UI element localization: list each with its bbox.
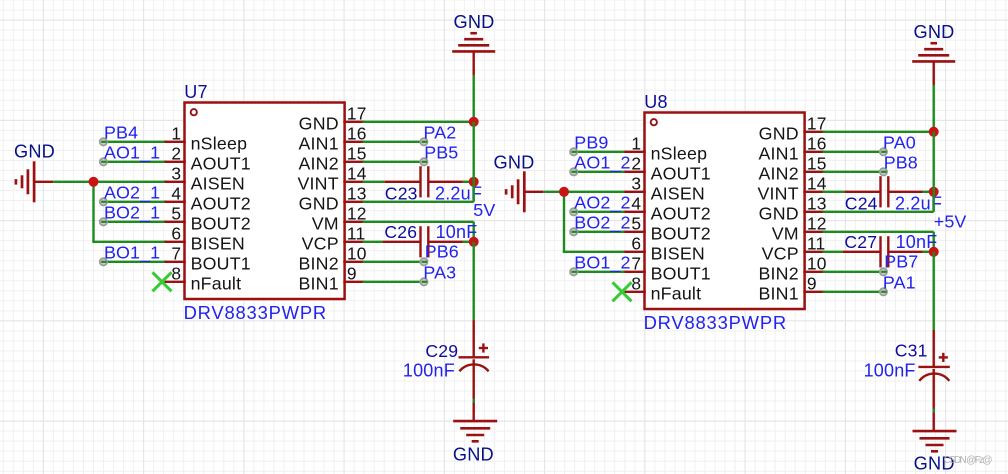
svg-text:1: 1 bbox=[631, 134, 641, 154]
pin 17 (GND) bbox=[803, 131, 824, 133]
pin end dot (BO2_1) bbox=[100, 218, 107, 225]
svg-text:9: 9 bbox=[347, 264, 357, 284]
wire pin 14 VINT to capacitor C24 bbox=[823, 191, 845, 193]
wire net BO2_1 to pin 5 bbox=[103, 221, 166, 223]
svg-text:GND: GND bbox=[759, 204, 799, 224]
pin 6 (BISEN) bbox=[164, 241, 185, 243]
wire 5V rail down to capacitor C29 bbox=[473, 242, 475, 321]
svg-text:GND: GND bbox=[299, 114, 339, 134]
wire pin 11 VCP to capacitor C27 bbox=[823, 251, 843, 253]
svg-text:BO2_1: BO2_1 bbox=[104, 202, 160, 223]
svg-text:GND: GND bbox=[299, 194, 339, 214]
svg-text:5: 5 bbox=[171, 204, 181, 224]
wire pin 11 VCP to capacitor C26 bbox=[363, 241, 383, 243]
svg-text:U7: U7 bbox=[184, 82, 207, 102]
pin 6 (BISEN) bbox=[624, 251, 645, 253]
no-connect X on pin 8 nFault bbox=[153, 272, 172, 291]
wire pin 15 to net PB8 bbox=[823, 171, 884, 173]
pin 9 (BIN1) bbox=[343, 281, 364, 283]
pin 8 (nFault) bbox=[624, 291, 645, 293]
U8 symbol circle mark bbox=[651, 119, 657, 125]
pin 4 (AOUT2) bbox=[624, 211, 645, 213]
svg-text:3: 3 bbox=[171, 164, 181, 184]
ground (top, U8 GND rail) bbox=[912, 43, 955, 85]
svg-text:PA1: PA1 bbox=[883, 272, 916, 292]
pin 9 (BIN1) bbox=[803, 291, 824, 293]
svg-text:GND: GND bbox=[453, 445, 494, 465]
svg-text:AO1_2: AO1_2 bbox=[574, 152, 630, 173]
junction (GND rail / pin 17) bbox=[469, 117, 479, 127]
wire GND rail vertical bbox=[933, 85, 935, 132]
pin 15 (AIN2) bbox=[343, 161, 364, 163]
svg-text:C23: C23 bbox=[385, 184, 418, 204]
pin end dot (BO2_2) bbox=[570, 228, 577, 235]
svg-text:C31: C31 bbox=[895, 341, 928, 361]
wire GND rail pin17 to VINT cap bbox=[473, 122, 475, 182]
svg-text:5: 5 bbox=[631, 214, 641, 234]
U7 symbol circle mark bbox=[191, 109, 197, 115]
pin end dot (PA1) bbox=[880, 288, 887, 295]
pin 8 (nFault) bbox=[164, 281, 185, 283]
wire pin 16 to net PA0 bbox=[823, 151, 884, 153]
ground (bottom, U8) bbox=[913, 431, 957, 451]
svg-text:AO2_1: AO2_1 bbox=[104, 182, 160, 203]
svg-text:9: 9 bbox=[807, 274, 817, 294]
svg-text:nSleep: nSleep bbox=[191, 134, 248, 154]
svg-text:PA2: PA2 bbox=[424, 122, 457, 142]
pin 1 (nSleep) bbox=[624, 151, 645, 153]
junction (5V rail / C26) bbox=[469, 237, 479, 247]
wire net PB4 to pin 1 bbox=[103, 141, 166, 143]
svg-text:4: 4 bbox=[171, 184, 181, 204]
pin 14 (VINT) bbox=[343, 181, 364, 183]
junction (GND branch) bbox=[89, 177, 99, 187]
svg-text:AIN1: AIN1 bbox=[758, 144, 798, 164]
svg-text:8: 8 bbox=[171, 264, 181, 284]
wire GND to pin 3 (AISEN) bbox=[53, 181, 166, 183]
svg-text:AOUT2: AOUT2 bbox=[191, 194, 251, 214]
svg-text:U8: U8 bbox=[644, 92, 667, 112]
svg-text:AISEN: AISEN bbox=[651, 184, 705, 204]
svg-text:8: 8 bbox=[631, 274, 641, 294]
wire pin 14 VINT to capacitor C23 bbox=[363, 181, 385, 183]
svg-text:BOUT2: BOUT2 bbox=[191, 214, 251, 234]
svg-text:BIN1: BIN1 bbox=[298, 274, 338, 294]
svg-text:GND: GND bbox=[913, 22, 954, 42]
wire pin 9 to net PA1 bbox=[823, 291, 884, 293]
svg-text:DRV8833PWPR: DRV8833PWPR bbox=[184, 302, 327, 323]
wire net PB9 to pin 1 bbox=[574, 151, 627, 153]
svg-text:7: 7 bbox=[631, 254, 641, 274]
pin 3 (AISEN) bbox=[624, 191, 645, 193]
svg-text:GND: GND bbox=[493, 152, 534, 172]
wire net AO1_1 to pin 2 bbox=[103, 161, 166, 163]
svg-text:PA0: PA0 bbox=[883, 132, 916, 152]
pin 14 (VINT) bbox=[803, 191, 824, 193]
pin 2 (AOUT1) bbox=[164, 161, 185, 163]
svg-text:AIN2: AIN2 bbox=[758, 164, 798, 184]
pin 10 (BIN2) bbox=[803, 271, 824, 273]
wire 5V rail down to capacitor C31 bbox=[933, 252, 935, 330]
wire GND rail vertical bbox=[473, 75, 475, 122]
svg-text:BOUT1: BOUT1 bbox=[651, 264, 711, 284]
svg-text:BIN1: BIN1 bbox=[758, 284, 798, 304]
wire GND branch down to pin 6 (BISEN) bbox=[92, 182, 166, 242]
pin 11 (VCP) bbox=[803, 251, 824, 253]
pin end dot (PB9) bbox=[570, 148, 577, 155]
wire net AO2_2 to pin 4 bbox=[574, 211, 627, 213]
pin 3 (AISEN) bbox=[164, 181, 185, 183]
ground (top, U7 GND rail) bbox=[452, 33, 495, 75]
svg-text:BOUT1: BOUT1 bbox=[191, 254, 251, 274]
wire pin 12 VM to 5V rail corner bbox=[363, 222, 474, 242]
pin 5 (BOUT2) bbox=[164, 221, 185, 223]
wire net AO2_1 to pin 4 bbox=[103, 201, 166, 203]
pin end dot (PB5) bbox=[420, 158, 427, 165]
svg-text:10nF: 10nF bbox=[436, 222, 478, 242]
pin 7 (BOUT1) bbox=[624, 271, 645, 273]
svg-text:VCP: VCP bbox=[302, 234, 339, 254]
wire stitch on C29 lower lead bbox=[473, 399, 475, 403]
junction (GND branch) bbox=[559, 187, 569, 197]
pin 5 (BOUT2) bbox=[624, 231, 645, 233]
svg-text:nSleep: nSleep bbox=[651, 144, 708, 164]
capacitor C24 (2.2uF) bbox=[845, 176, 923, 207]
svg-text:nFault: nFault bbox=[651, 284, 702, 304]
junction (GND rail / C24) bbox=[929, 187, 939, 197]
svg-text:AO2_2: AO2_2 bbox=[574, 192, 630, 213]
svg-text:AISEN: AISEN bbox=[191, 174, 245, 194]
wire GND branch down to pin 6 (BISEN) bbox=[563, 192, 627, 252]
svg-text:VINT: VINT bbox=[297, 174, 338, 194]
svg-text:AOUT2: AOUT2 bbox=[651, 204, 711, 224]
pin end dot (PB4) bbox=[100, 138, 107, 145]
svg-text:3: 3 bbox=[631, 174, 641, 194]
svg-text:4: 4 bbox=[631, 194, 641, 214]
capacitor C27 (10nF) bbox=[843, 236, 923, 267]
svg-text:11: 11 bbox=[807, 234, 825, 254]
svg-text:C27: C27 bbox=[844, 232, 877, 252]
wire capacitor C23 to GND rail bbox=[463, 181, 474, 183]
svg-text:AIN2: AIN2 bbox=[298, 154, 338, 174]
svg-text:BO1_1: BO1_1 bbox=[104, 242, 160, 263]
svg-text:PB5: PB5 bbox=[424, 142, 458, 162]
wire net AO1_2 to pin 2 bbox=[574, 171, 627, 173]
wire pin 15 to net PB5 bbox=[363, 161, 424, 163]
svg-text:DRV8833PWPR: DRV8833PWPR bbox=[644, 312, 787, 333]
wire pin 16 to net PA2 bbox=[363, 141, 424, 143]
pin 11 (VCP) bbox=[343, 241, 364, 243]
wire capacitor C24 to GND rail bbox=[923, 191, 934, 193]
svg-text:PB4: PB4 bbox=[104, 122, 138, 142]
svg-text:AOUT1: AOUT1 bbox=[191, 154, 251, 174]
svg-text:CSDN @Fz@: CSDN @Fz@ bbox=[944, 455, 993, 466]
svg-text:11: 11 bbox=[347, 224, 365, 244]
svg-text:GND: GND bbox=[453, 12, 494, 32]
svg-text:AIN1: AIN1 bbox=[298, 134, 338, 154]
svg-text:VCP: VCP bbox=[762, 244, 799, 264]
pin end dot (PA0) bbox=[880, 148, 887, 155]
capacitor C23 (2.2uF) bbox=[385, 166, 463, 197]
pin 4 (AOUT2) bbox=[164, 201, 185, 203]
svg-text:5V: 5V bbox=[473, 200, 495, 220]
ground (bottom, U7) bbox=[453, 421, 497, 441]
pin 13 (GND) bbox=[343, 201, 364, 203]
svg-text:10nF: 10nF bbox=[896, 232, 938, 252]
pin end dot (AO2_2) bbox=[570, 208, 577, 215]
ground U7 left (signal ground for AISEN/BISEN) bbox=[16, 161, 53, 202]
pin 12 (VM) bbox=[343, 221, 364, 223]
svg-text:6: 6 bbox=[171, 224, 181, 244]
svg-text:nFault: nFault bbox=[191, 274, 242, 294]
svg-text:BOUT2: BOUT2 bbox=[651, 224, 711, 244]
pin 17 (GND) bbox=[343, 121, 364, 123]
svg-text:C29: C29 bbox=[425, 341, 458, 361]
svg-text:BO2_2: BO2_2 bbox=[574, 212, 630, 233]
pin end dot (BO1_2) bbox=[570, 268, 577, 275]
junction (GND rail / pin 17) bbox=[929, 127, 939, 137]
svg-text:100nF: 100nF bbox=[403, 360, 455, 380]
wire pin 17 GND to vertical GND rail bbox=[363, 121, 474, 123]
pin 1 (nSleep) bbox=[164, 141, 185, 143]
svg-text:AO1_1: AO1_1 bbox=[104, 142, 160, 163]
pin end dot (PB7) bbox=[880, 268, 887, 275]
pin end dot (AO1_1) bbox=[100, 158, 107, 165]
svg-text:VM: VM bbox=[312, 214, 339, 234]
svg-text:BIN2: BIN2 bbox=[298, 254, 338, 274]
wire pin 9 to net PA3 bbox=[363, 281, 424, 283]
junction (5V rail / C27) bbox=[929, 247, 939, 257]
wire net BO1_1 to pin 7 bbox=[103, 261, 166, 263]
pin 16 (AIN1) bbox=[343, 141, 364, 143]
pin end dot (PB8) bbox=[880, 168, 887, 175]
wire pin 13 GND up to rail corner bbox=[823, 192, 934, 212]
pin 13 (GND) bbox=[803, 211, 824, 213]
svg-text:PB7: PB7 bbox=[884, 252, 918, 272]
svg-text:C24: C24 bbox=[845, 194, 878, 214]
ground U8 left (signal ground for AISEN/BISEN) bbox=[506, 171, 543, 212]
wire capacitor C26 to 5V rail bbox=[463, 241, 474, 243]
no-connect X on pin 8 nFault bbox=[613, 282, 632, 301]
capacitor C29 (100nF, polarized) bbox=[459, 320, 490, 421]
wire pin 10 to net PB7 bbox=[823, 271, 884, 273]
IC body U8 DRV8833PWPR bbox=[645, 113, 805, 310]
pin end dot (PB6) bbox=[420, 258, 427, 265]
pin 7 (BOUT1) bbox=[164, 261, 185, 263]
svg-text:C26: C26 bbox=[384, 222, 417, 242]
svg-text:1: 1 bbox=[171, 124, 181, 144]
svg-text:2: 2 bbox=[171, 144, 181, 164]
wire GND to pin 3 (AISEN) bbox=[543, 191, 626, 193]
pin 15 (AIN2) bbox=[803, 171, 824, 173]
capacitor C31 (100nF, polarized) bbox=[918, 330, 949, 431]
pin 10 (BIN2) bbox=[343, 261, 364, 263]
wire pin 10 to net PB6 bbox=[363, 261, 424, 263]
wire GND rail pin17 to VINT cap bbox=[933, 132, 935, 192]
svg-text:2: 2 bbox=[631, 154, 641, 174]
svg-text:BISEN: BISEN bbox=[651, 244, 705, 264]
pin 2 (AOUT1) bbox=[624, 171, 645, 173]
pin end dot (PA3) bbox=[420, 278, 427, 285]
svg-text:VINT: VINT bbox=[757, 184, 798, 204]
wire stitch on C31 lower lead bbox=[933, 409, 935, 413]
svg-text:2.2uF: 2.2uF bbox=[895, 194, 942, 214]
svg-text:VM: VM bbox=[772, 224, 799, 244]
svg-text:BO1_2: BO1_2 bbox=[574, 252, 630, 273]
svg-text:BISEN: BISEN bbox=[191, 234, 245, 254]
wire net BO2_2 to pin 5 bbox=[574, 231, 627, 233]
svg-text:PB6: PB6 bbox=[425, 242, 459, 262]
svg-text:BIN2: BIN2 bbox=[758, 264, 798, 284]
svg-text:6: 6 bbox=[631, 234, 641, 254]
pin end dot (AO1_2) bbox=[570, 168, 577, 175]
svg-text:PB9: PB9 bbox=[574, 132, 608, 152]
svg-text:+5V: +5V bbox=[934, 212, 967, 232]
svg-text:AOUT1: AOUT1 bbox=[651, 164, 711, 184]
pin end dot (PA2) bbox=[420, 138, 427, 145]
svg-text:PA3: PA3 bbox=[423, 262, 456, 282]
svg-text:PB8: PB8 bbox=[884, 152, 918, 172]
wire net BO1_2 to pin 7 bbox=[574, 271, 627, 273]
wire pin 17 GND to vertical GND rail bbox=[823, 131, 934, 133]
wire pin 13 GND up to rail corner bbox=[363, 182, 474, 202]
IC body U7 DRV8833PWPR bbox=[185, 103, 345, 300]
wire capacitor C27 to 5V rail bbox=[923, 251, 934, 253]
svg-text:100nF: 100nF bbox=[864, 360, 916, 380]
pin 16 (AIN1) bbox=[803, 151, 824, 153]
pin 12 (VM) bbox=[803, 231, 824, 233]
svg-text:GND: GND bbox=[14, 142, 55, 162]
capacitor C26 (10nF) bbox=[383, 226, 463, 257]
pin end dot (BO1_1) bbox=[100, 258, 107, 265]
junction (GND rail / C23) bbox=[469, 177, 479, 187]
pin end dot (AO2_1) bbox=[100, 198, 107, 205]
svg-text:GND: GND bbox=[759, 124, 799, 144]
wire pin 12 VM to 5V rail corner bbox=[823, 232, 934, 252]
svg-text:7: 7 bbox=[171, 244, 181, 264]
